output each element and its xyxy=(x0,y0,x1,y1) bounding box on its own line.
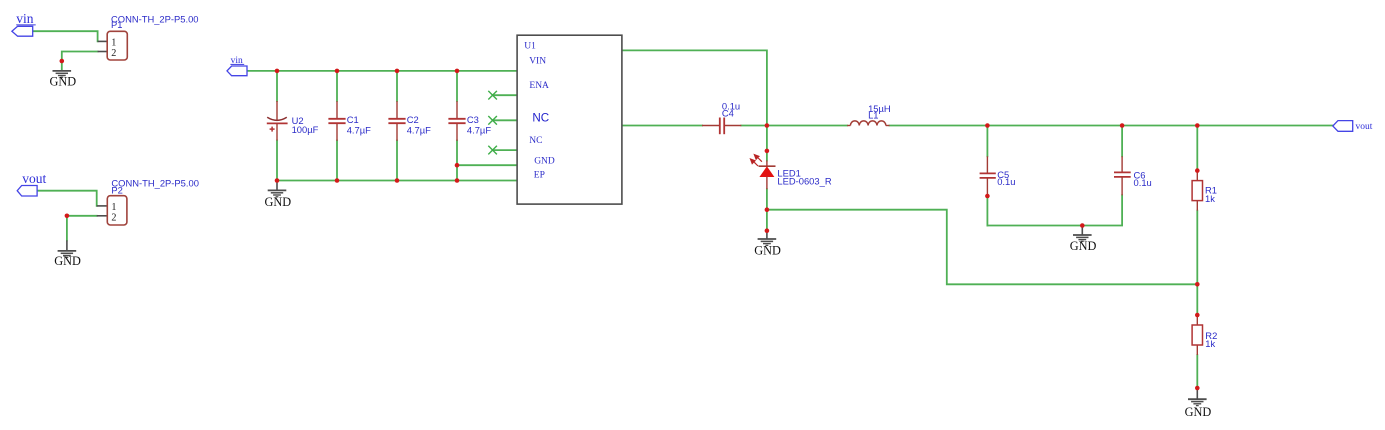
svg-text:vin: vin xyxy=(231,56,243,66)
svg-text:C4: C4 xyxy=(722,107,734,118)
svg-text:GND: GND xyxy=(754,243,781,257)
svg-text:4.7µF: 4.7µF xyxy=(467,125,491,136)
svg-text:GND: GND xyxy=(534,157,555,167)
svg-text:EP: EP xyxy=(534,171,545,181)
svg-text:GND: GND xyxy=(50,75,77,89)
svg-text:L1: L1 xyxy=(868,109,878,120)
svg-text:CONN-TH_2P-P5.00: CONN-TH_2P-P5.00 xyxy=(111,13,199,24)
svg-text:100µF: 100µF xyxy=(292,124,319,135)
svg-text:1k: 1k xyxy=(1205,338,1215,349)
svg-text:NC: NC xyxy=(529,136,542,146)
svg-text:P2: P2 xyxy=(111,184,122,195)
svg-text:ENA: ENA xyxy=(529,81,549,91)
svg-text:0.1u: 0.1u xyxy=(1134,177,1152,188)
svg-text:GND: GND xyxy=(54,254,81,268)
svg-text:2: 2 xyxy=(111,212,116,223)
svg-text:LED-0603_R: LED-0603_R xyxy=(777,176,831,187)
svg-text:vout: vout xyxy=(1356,122,1373,132)
svg-text:CONN-TH_2P-P5.00: CONN-TH_2P-P5.00 xyxy=(111,178,199,189)
svg-text:4.7µF: 4.7µF xyxy=(347,125,371,136)
svg-text:VIN: VIN xyxy=(529,57,546,67)
svg-text:GND: GND xyxy=(265,195,292,209)
svg-text:0.1u: 0.1u xyxy=(997,176,1015,187)
svg-text:GND: GND xyxy=(1070,239,1097,253)
svg-text:U1: U1 xyxy=(524,41,536,51)
svg-text:1k: 1k xyxy=(1205,193,1215,204)
svg-text:vout: vout xyxy=(22,171,46,186)
svg-text:vin: vin xyxy=(16,11,34,26)
svg-text:P1: P1 xyxy=(111,19,122,30)
svg-text:2: 2 xyxy=(111,48,116,59)
svg-text:NC: NC xyxy=(532,111,549,124)
svg-text:GND: GND xyxy=(1185,405,1212,419)
svg-text:4.7µF: 4.7µF xyxy=(407,125,431,136)
